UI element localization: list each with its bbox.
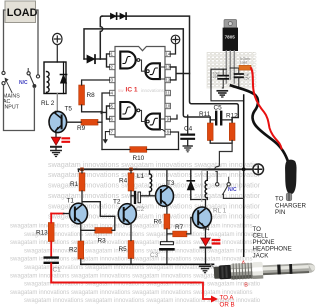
wire: load right leg down to relay contact xyxy=(36,10,39,75)
svg-text:R2: R2 xyxy=(69,247,78,254)
capacitor C1 xyxy=(45,242,61,274)
relay RL1 coil xyxy=(191,169,227,214)
svg-text:JACK: JACK xyxy=(253,252,270,259)
supply + terminal (IC) xyxy=(171,35,180,44)
resistor R11 xyxy=(199,111,213,141)
wire: R8 bottom to gate-2 input node xyxy=(82,105,102,112)
headphone jack photo xyxy=(211,264,217,270)
ground (C4) xyxy=(183,146,192,152)
svg-text:IC 1: IC 1 xyxy=(126,87,138,94)
svg-text:10: 10 xyxy=(166,104,171,109)
wire: T4 collector to relay xyxy=(205,200,207,209)
svg-text:11: 11 xyxy=(166,91,171,96)
transistor T2 xyxy=(113,199,136,225)
svg-text:R8: R8 xyxy=(87,92,96,99)
transistor T4 xyxy=(193,207,212,233)
wire: T1 base stub xyxy=(64,213,70,215)
wire: pin 8 to R10 right xyxy=(170,132,178,150)
resistor R10 xyxy=(130,147,147,162)
svg-text:R5: R5 xyxy=(119,246,128,253)
svg-text:innovations: innovations xyxy=(141,88,165,93)
transistor T5 xyxy=(49,106,72,133)
ground (bottom bus) xyxy=(200,266,211,272)
resistor R5 xyxy=(119,224,134,265)
svg-text:C1: C1 xyxy=(53,267,62,274)
pin 8 xyxy=(165,129,170,134)
wire: T4 emitter to LED xyxy=(205,227,207,238)
label TO A OR B xyxy=(220,295,235,307)
svg-text:T5: T5 xyxy=(65,106,73,113)
switch S1 mains contacts xyxy=(2,71,5,84)
wire: R4 bottom to T2 collector xyxy=(130,191,132,205)
wire: bottom ground bus xyxy=(81,263,214,265)
pin 6 xyxy=(110,116,115,121)
wire: R1 bottom to T1 collector xyxy=(81,191,83,205)
svg-text:C5: C5 xyxy=(214,105,223,112)
ground (T5 LED) xyxy=(51,151,61,157)
svg-text:R1: R1 xyxy=(70,181,79,188)
svg-text:Load: Load xyxy=(240,61,247,65)
pin 9 xyxy=(165,116,170,121)
capacitor C3 xyxy=(150,242,173,265)
diode D1 xyxy=(84,55,100,63)
wire: + to relay coil top xyxy=(56,45,58,62)
junction (R4/bus) xyxy=(129,168,133,172)
capacitor C2 xyxy=(131,192,150,213)
wire: T1 emitter down xyxy=(80,223,82,241)
inductor L1 xyxy=(137,169,152,196)
relay RL1 frame xyxy=(202,171,240,202)
svg-text:INPUT: INPUT xyxy=(3,105,20,111)
wire: T3 base to L1/C2 node xyxy=(150,195,156,197)
capacitor (1uF module) xyxy=(235,68,251,86)
diode D3 xyxy=(120,13,126,19)
wire: relay coil bottom to T5 collector xyxy=(56,94,58,113)
pin 13 xyxy=(165,64,171,69)
svg-text:N/C: N/C xyxy=(19,80,28,86)
gate U1a xyxy=(120,52,140,69)
svg-text:B: B xyxy=(244,282,248,288)
wire: pins 5-6 input bracket xyxy=(102,106,110,119)
load box xyxy=(5,1,38,23)
svg-text:R11: R11 xyxy=(199,111,211,118)
wire: pin 3 to R8 top xyxy=(82,80,110,85)
junction (bus / jack feed) xyxy=(242,167,246,171)
pin 12 xyxy=(165,77,171,82)
svg-text:T1: T1 xyxy=(67,198,75,205)
label TO CHARGER PIN xyxy=(275,196,306,216)
svg-text:7805: 7805 xyxy=(225,35,236,40)
wire: pin 4 down to R10 line xyxy=(102,93,110,150)
mains input label with arrow xyxy=(3,78,20,111)
wire: D1 cathode up, hop over rail B, to rail A start xyxy=(100,16,102,59)
wire: pins 13-12 bracket to rail A xyxy=(170,67,189,80)
wire: 7805 down-feed to jack, through bus junction xyxy=(243,95,245,256)
gate U1b xyxy=(145,63,160,79)
wire: pins 1-2 input bracket from D1 xyxy=(100,54,109,67)
svg-text:N/C: N/C xyxy=(228,187,237,193)
wire: pin 7 stub with arrow xyxy=(103,132,109,144)
svg-text:R9: R9 xyxy=(77,125,86,132)
diode (RL2 flyback) xyxy=(60,62,66,94)
resistor R4 xyxy=(119,169,134,191)
pin 4 xyxy=(110,90,115,95)
wire: gate U1d input stubs xyxy=(160,119,165,132)
resistor R2 xyxy=(69,241,84,264)
svg-text:LOAD: LOAD xyxy=(7,7,38,19)
pin 1 xyxy=(110,51,115,56)
wire: R9 right to gate-2 input node xyxy=(98,121,102,123)
svg-text:swagatam innovations swagatam: swagatam innovations swagatam innovation… xyxy=(24,232,266,238)
resistor R12 xyxy=(226,113,238,141)
pin 2 xyxy=(110,64,115,69)
wire: R7 to T4 base xyxy=(187,218,193,234)
diode D2 xyxy=(111,13,117,19)
wire: T5 base to R9 xyxy=(67,121,81,123)
supply + terminal (oscillator bus) xyxy=(253,164,264,175)
supply + terminal (RL2) xyxy=(53,33,62,44)
pin 10 xyxy=(165,103,171,108)
IC U1 package xyxy=(115,47,165,138)
wire: T3 collector to bus xyxy=(166,169,168,187)
wire: R10 line xyxy=(102,149,179,151)
svg-text:PIN: PIN xyxy=(275,209,285,216)
wire (red): arrow to A or B xyxy=(200,283,219,303)
wire: load left leg down to switch xyxy=(4,10,6,71)
wire (red) 7805 to charger plug xyxy=(251,68,282,149)
wire: gate U1c output to U1d bubble xyxy=(140,110,147,121)
breadboard (7805 module) xyxy=(207,52,257,89)
svg-text:R10: R10 xyxy=(133,155,145,162)
svg-text:R6: R6 xyxy=(154,219,163,226)
svg-text:R3: R3 xyxy=(98,238,107,245)
wire: rail A (2-diode rail) xyxy=(102,16,238,123)
svg-text:R4: R4 xyxy=(119,178,128,185)
capacitor C5 xyxy=(210,105,232,125)
wire: rail B (anode rail) xyxy=(84,29,210,123)
svg-text:RL 1: RL 1 xyxy=(213,208,227,215)
wire: + bus xyxy=(79,168,253,170)
wire: pin 14 to + xyxy=(170,44,175,54)
LED indicator at T5 xyxy=(51,133,69,151)
label TO CELL PHONE HEADPHONE JACK xyxy=(253,226,292,259)
pin 3 xyxy=(110,77,115,82)
IC2 7805 regulator xyxy=(223,20,238,84)
charger plug xyxy=(285,160,297,201)
gate U1d xyxy=(145,114,159,130)
wire: stepped lead to relay contact with hop over + bus xyxy=(215,143,232,182)
svg-text:C4: C4 xyxy=(184,126,193,133)
wire: gate U1b input stubs xyxy=(160,67,165,79)
svg-text:sw: sw xyxy=(118,88,124,93)
diode D4 (RL1 flyback) xyxy=(187,169,194,199)
svg-text:RL 2: RL 2 xyxy=(41,100,55,107)
resistor R7 xyxy=(173,224,187,237)
svg-text:C2: C2 xyxy=(136,206,145,213)
wire: R6 bottom to C3 and R7 xyxy=(167,229,173,242)
wire (red): C1 to bottom bus xyxy=(51,264,200,283)
wire: T3 emitter to R6 xyxy=(166,206,168,215)
ground (7805 module) xyxy=(217,88,227,97)
svg-text:C3: C3 xyxy=(150,252,159,259)
svg-text:25V: 25V xyxy=(244,77,251,81)
wire: pin 9 stub to rail B xyxy=(170,115,177,119)
wire: mains loop xyxy=(4,85,35,131)
wire (black) 7805 to charger plug xyxy=(231,86,289,164)
relay RL1 contacts xyxy=(216,177,231,194)
pin 11 xyxy=(165,90,171,95)
resistor R1 xyxy=(70,169,85,191)
resistor R3 xyxy=(81,218,115,245)
svg-text:OR B: OR B xyxy=(220,301,235,307)
resistor R6 xyxy=(154,214,170,229)
svg-text:R13: R13 xyxy=(36,230,48,237)
svg-text:R12: R12 xyxy=(226,113,238,120)
resistor (5 ohm load, module) xyxy=(239,57,251,70)
junction (R1/bus) xyxy=(80,168,84,172)
wire: R11/R12 bottoms joined xyxy=(210,141,232,144)
pin 5 xyxy=(110,103,115,108)
wire: gate U1a output to U1b bubble xyxy=(140,60,147,71)
svg-text:25V: 25V xyxy=(213,75,220,79)
pin 7 xyxy=(110,129,115,134)
gate U1c xyxy=(120,102,140,119)
relay RL2 coil xyxy=(41,62,66,107)
wire: RL1 pole to jack feed line xyxy=(223,194,244,198)
pin 14 xyxy=(165,51,171,56)
resistor R9 xyxy=(77,119,98,132)
transistor T3 xyxy=(156,180,175,206)
wire: T1 collector coupling to T2 base xyxy=(83,202,115,217)
wire (red): input to T1 base xyxy=(51,213,63,215)
svg-text:swagatam innovations swagatam: swagatam innovations swagatam innovation… xyxy=(10,290,252,296)
resistor R13 xyxy=(36,214,54,242)
junction marker (gate-2 node) xyxy=(101,111,105,115)
svg-text:T2: T2 xyxy=(113,199,121,206)
relay RL2 contact set xyxy=(27,69,40,88)
capacitor (10uF module) xyxy=(213,69,228,88)
svg-text:R7: R7 xyxy=(175,224,184,231)
wire: 7805 module box xyxy=(211,68,244,101)
resistor R8 xyxy=(79,85,95,105)
svg-text:L1: L1 xyxy=(137,173,145,180)
capacitor C4 xyxy=(181,115,194,146)
svg-text:swagatam innovations swagatam: swagatam innovations swagatam innovation… xyxy=(24,248,266,254)
svg-text:T3: T3 xyxy=(167,180,175,187)
transistor T1 xyxy=(67,198,88,224)
LED indicator at T4 xyxy=(201,238,220,264)
